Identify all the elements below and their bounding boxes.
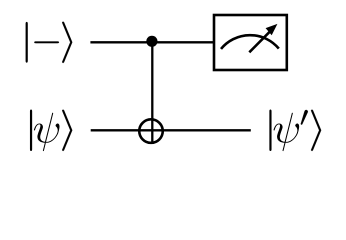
measurement box (214, 15, 287, 70)
meter needle arrowhead (266, 24, 278, 35)
meter arc (221, 35, 279, 49)
psi glyph of |psi-prime> label (274, 113, 300, 151)
ket bar of |psi> label (30, 110, 32, 151)
ket bar of |minus> label (26, 22, 28, 62)
right angle bracket of |psi-prime> label (311, 110, 321, 151)
right angle bracket of |psi> label (62, 110, 72, 151)
prime mark of |psi-prime> label (301, 110, 308, 125)
wire vertical control to target (151, 42, 153, 143)
wire top qubit (90, 41, 214, 43)
ket bar of |psi-prime> label (270, 110, 272, 151)
psi glyph of |psi> label (34, 113, 60, 151)
wire bottom qubit (91, 129, 251, 131)
CNOT target circle (139, 119, 163, 143)
minus sign of |minus> label (34, 42, 59, 44)
right angle bracket of |minus> label (62, 22, 72, 63)
control dot (146, 36, 157, 47)
meter needle (249, 30, 271, 52)
